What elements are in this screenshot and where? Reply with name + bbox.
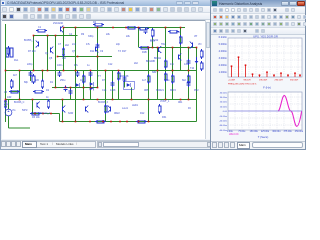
svg-text:-30.00m: -30.00m [219, 125, 227, 127]
wire top rail [64, 27, 186, 29]
junction J32 [77, 56, 79, 58]
junction J24 [75, 70, 77, 72]
resistor R30 [164, 61, 167, 67]
svg-text:47u: 47u [74, 64, 79, 67]
svg-text:1u: 1u [87, 64, 90, 67]
wire v x163 [165, 28, 167, 100]
svg-text:250u: 250u [60, 79, 66, 82]
resistor R1 [10, 81, 13, 87]
transistor Q6 [85, 107, 87, 112]
junction J31 [57, 56, 59, 58]
svg-text:68R: 68R [152, 71, 157, 74]
harmonic stem 11 [299, 75, 301, 77]
svg-text:R3 10k: R3 10k [32, 116, 40, 119]
svg-text:1.000m: 1.000m [219, 71, 227, 74]
transistor Q8 [178, 55, 180, 60]
svg-text:R4: R4 [93, 21, 97, 24]
junction J1 [33, 35, 35, 37]
svg-text:22k: 22k [126, 35, 131, 38]
junction J63 [148, 121, 150, 123]
junction J22 [47, 70, 49, 72]
harmonic stem 2 [238, 57, 240, 77]
junction J59 [110, 121, 112, 123]
junction J61 [126, 121, 128, 123]
capacitor C1 [58, 72, 62, 74]
junction J23 [63, 70, 65, 72]
output waveform [278, 96, 302, 127]
svg-text:150.00u: 150.00u [250, 131, 259, 133]
transistor Q9 [192, 43, 194, 48]
svg-text:C14: C14 [102, 89, 107, 92]
ground GND1 [196, 57, 198, 61]
waveform plot frame [228, 92, 302, 130]
junction J36 [70, 87, 72, 89]
transistor Q11 [158, 47, 160, 52]
svg-text:2SC2240: 2SC2240 [53, 22, 64, 25]
wire v x129 [131, 88, 133, 100]
svg-text:NJW: NJW [68, 112, 74, 115]
junction J26 [105, 70, 107, 72]
svg-text:VG: VG [12, 109, 16, 112]
resistor R10 [187, 76, 190, 82]
svg-text:C1: C1 [38, 26, 42, 29]
svg-text:VOUT_1: VOUT_1 [160, 100, 170, 103]
junction J15 [172, 47, 174, 49]
plot client area [211, 35, 305, 141]
svg-text:BC846_C: BC846_C [14, 101, 25, 104]
right bottom strip [211, 141, 305, 149]
resistor R8 [171, 76, 174, 82]
svg-text:2.000m: 2.000m [219, 64, 227, 67]
transistor Q1 [38, 42, 40, 47]
wire v x6 low [8, 116, 10, 128]
capacitor C4 [111, 82, 115, 84]
wire v x9 [12, 91, 20, 93]
svg-text:47k: 47k [86, 43, 91, 46]
svg-text:2n2: 2n2 [72, 43, 77, 46]
svg-text:10u: 10u [80, 79, 85, 82]
svg-text:T7: T7 [98, 75, 101, 78]
junction J34 [55, 87, 57, 89]
svg-text:20.00m: 20.00m [220, 102, 227, 104]
relay K1 [6, 48, 9, 57]
resistor R19 [128, 26, 135, 29]
junction J50 [180, 99, 182, 101]
capacitor C2 [76, 72, 80, 74]
junction J60 [119, 121, 121, 123]
wire v x116 [118, 71, 120, 100]
svg-text:R31: R31 [162, 116, 167, 119]
svg-text:50Hz: 50Hz [22, 109, 28, 112]
resistor R14 [7, 48, 10, 54]
svg-text:0R1: 0R1 [178, 101, 183, 104]
wire v x73 [75, 28, 77, 122]
resistor R13 [147, 76, 150, 82]
stem plot frame [228, 38, 302, 77]
svg-text:47p: 47p [170, 63, 175, 66]
svg-text:4.000m: 4.000m [219, 50, 227, 53]
junction J2 [47, 35, 49, 37]
svg-text:4k7: 4k7 [13, 74, 18, 77]
junction J8 [125, 27, 127, 29]
junction J54 [50, 113, 52, 115]
harmonic stem 5 [259, 75, 261, 77]
svg-text:T (Secs): T (Secs) [258, 135, 269, 139]
wire v x110 [112, 71, 114, 100]
svg-text:22p: 22p [116, 43, 121, 46]
capacitor C10 [69, 90, 73, 92]
transistor Q2 [50, 48, 52, 53]
resistor R23 [35, 90, 42, 93]
svg-text:BD140B: BD140B [146, 60, 155, 63]
diode D4 [76, 83, 80, 87]
harmonic stem 10 [294, 73, 296, 77]
capacitor C6 [187, 60, 191, 62]
resistor R4 [82, 76, 85, 82]
capacitor C11 [29, 72, 33, 74]
svg-text:10.00m: 10.00m [220, 106, 227, 108]
svg-text:1N4148: 1N4148 [120, 75, 129, 78]
junction J28 [157, 70, 159, 72]
resistor R12 [158, 106, 161, 112]
svg-text:75.00u: 75.00u [238, 131, 246, 133]
source V1 [5, 109, 12, 116]
junction J56 [75, 121, 77, 123]
junction J42 [32, 99, 34, 101]
wire v x146 [148, 48, 150, 122]
resistor R6 [117, 73, 120, 79]
right title bar [211, 0, 305, 7]
junction J51 [188, 99, 190, 101]
junction J35 [65, 87, 67, 89]
resistor R7 [151, 30, 154, 36]
wire v x186 [188, 48, 190, 100]
junction J39 [97, 87, 99, 89]
svg-text:R20: R20 [176, 31, 181, 34]
harmonic stem 6 [266, 72, 268, 77]
svg-text:R17: R17 [122, 50, 127, 53]
diode D3 [123, 81, 134, 89]
left bottom tab strip [1, 140, 212, 148]
resistor R27 [32, 112, 39, 115]
junction J43 [62, 99, 64, 101]
left toolbar row 2 [1, 13, 212, 20]
resistor R31 [164, 74, 167, 80]
junction J17 [196, 47, 198, 49]
resistor R20 [97, 120, 104, 123]
junction J16 [188, 47, 190, 49]
svg-text:T3: T3 [118, 50, 121, 53]
junction J41 [19, 99, 21, 101]
wire v x136 [138, 28, 140, 48]
transistor Q3 [60, 27, 62, 32]
svg-text:392.0kH: 392.0kH [290, 80, 299, 82]
svg-text:1n0: 1n0 [184, 63, 189, 66]
svg-text:R12: R12 [140, 112, 145, 115]
junction J46 [112, 99, 114, 101]
svg-text:68p: 68p [24, 81, 29, 84]
wire rail y78 [6, 99, 197, 101]
svg-text:294.0kH: 294.0kH [275, 80, 284, 82]
svg-text:220p: 220p [27, 63, 33, 66]
svg-text:R11: R11 [90, 50, 95, 53]
svg-text:BD911: BD911 [154, 57, 162, 60]
svg-text:Q5: Q5 [49, 57, 53, 60]
wire v x68 [70, 88, 72, 100]
svg-text:R1B: R1B [142, 51, 147, 54]
junction J53 [42, 113, 44, 115]
wire left border [5, 24, 7, 122]
wire v x95 [97, 28, 99, 88]
svg-text:375.00u: 375.00u [284, 131, 293, 133]
svg-text:1k0: 1k0 [62, 57, 67, 60]
junction J55 [62, 121, 64, 123]
wire v x31 [33, 36, 35, 71]
svg-text:D1: D1 [50, 81, 54, 84]
junction J58 [102, 121, 104, 123]
wire v x103 [105, 71, 107, 122]
svg-text:LED1: LED1 [132, 104, 139, 107]
resistor R21 [138, 120, 145, 123]
junction J45 [97, 99, 99, 101]
svg-text:VG1: VG1 [4, 103, 9, 106]
svg-text:C7: C7 [58, 43, 62, 46]
resistor R15 [200, 63, 203, 69]
junction J3 [55, 35, 57, 37]
wire v x81 [83, 71, 85, 100]
junction J62 [138, 121, 140, 123]
harmonic stem 3 [245, 65, 247, 77]
wire mid rail [6, 70, 197, 72]
svg-text:R9: R9 [81, 33, 85, 36]
resistor R5 [104, 106, 107, 112]
capacitor C12 [64, 87, 68, 89]
resistor R2 [32, 76, 35, 82]
left title bar [1, 0, 212, 6]
svg-text:10R: 10R [7, 96, 12, 99]
junction J40 [5, 99, 7, 101]
svg-text:Rz: Rz [188, 107, 192, 110]
svg-text:0.00: 0.00 [223, 111, 228, 113]
resistor R22 [11, 90, 18, 93]
wire v x45 [47, 36, 49, 71]
wire v x150 [152, 36, 154, 48]
svg-text:BD140_2: BD140_2 [40, 112, 51, 115]
svg-text:300.00u: 300.00u [272, 131, 281, 133]
left horizontal scrollbar [97, 141, 212, 148]
capacitor C9 [123, 77, 127, 79]
wire bottom rail L [31, 113, 60, 115]
junction J14 [157, 47, 159, 49]
svg-text:5.000m: 5.000m [219, 43, 227, 46]
svg-text:8k2: 8k2 [182, 79, 187, 82]
svg-text:Lout1: Lout1 [122, 107, 129, 110]
resistor R16 [41, 81, 44, 87]
wire v x155 [157, 48, 159, 100]
wire v x40 [42, 71, 44, 82]
wire v x178 [180, 28, 182, 71]
svg-text:2k2: 2k2 [134, 62, 139, 65]
wire rail y36 [58, 56, 113, 58]
svg-text:+0.0kH: +0.0kH [228, 80, 235, 82]
wire v x122 [124, 71, 126, 88]
junction J20 [33, 70, 35, 72]
svg-text:R7 2k0: R7 2k0 [28, 50, 36, 53]
resistor R29 [141, 46, 148, 49]
junction J25 [90, 70, 92, 72]
junction J37 [83, 87, 85, 89]
svg-text:LBL0.0C: LBL0.0C [229, 133, 239, 136]
svg-text:-40.00m: -40.00m [219, 130, 227, 132]
wire v x28 [30, 73, 32, 81]
svg-text:V3: V3 [4, 91, 8, 94]
resistor R11 [200, 51, 203, 57]
wire v x30 low [32, 100, 34, 114]
caption buttons [281, 1, 289, 6]
junction J9 [138, 27, 140, 29]
svg-text:F (Hz): F (Hz) [263, 86, 271, 90]
wire rail y67 [52, 87, 98, 89]
resistor R24 [170, 30, 177, 33]
svg-text:MJ15: MJ15 [170, 89, 177, 92]
svg-text:4u7: 4u7 [142, 79, 147, 82]
svg-text:4148: 4148 [110, 89, 116, 92]
svg-text:1k: 1k [167, 79, 170, 82]
wire v x53 [55, 36, 57, 88]
harmonic stem 8 [280, 73, 282, 77]
junction J33 [97, 56, 99, 58]
svg-text:VN: VN [198, 43, 202, 46]
right toolbars [211, 7, 305, 14]
svg-text:1k: 1k [46, 96, 49, 99]
svg-text:10P222: 10P222 [150, 39, 159, 42]
svg-text:1k5: 1k5 [35, 79, 40, 82]
left toolbar row 1 [1, 6, 212, 13]
schematic area [2, 20, 205, 139]
svg-text:D2: D2 [46, 89, 50, 92]
junction J10 [165, 27, 167, 29]
junction J21 [42, 70, 44, 72]
junction J48 [148, 99, 150, 101]
svg-text:2k2: 2k2 [65, 44, 70, 47]
capacitor C8 [96, 44, 100, 46]
resistor R26 [47, 101, 50, 107]
wire bottom step [59, 114, 61, 122]
junction J29 [172, 70, 174, 72]
wire right riser [196, 48, 198, 122]
junction J18 [5, 70, 7, 72]
wire right top rail [140, 47, 197, 49]
svg-text:-20.00m: -20.00m [219, 121, 227, 123]
junction J11 [180, 27, 182, 29]
junction J12 [148, 47, 150, 49]
wire rail B [34, 35, 78, 37]
svg-text:BC856_1: BC856_1 [24, 39, 35, 42]
svg-text:100n: 100n [57, 64, 63, 67]
wire v x60 low [62, 100, 64, 122]
harmonic stem 7 [273, 75, 275, 77]
svg-text:C9: C9 [100, 50, 104, 53]
junction J47 [131, 99, 133, 101]
harmonic stem 1 [231, 66, 233, 77]
junction J13 [152, 47, 154, 49]
junction J44 [83, 99, 85, 101]
harmonic stem 4 [252, 74, 254, 77]
junction J5 [75, 27, 77, 29]
svg-text:225.00u: 225.00u [261, 131, 270, 133]
junction J27 [118, 70, 120, 72]
svg-text:NJW21: NJW21 [156, 89, 165, 92]
svg-text:98.0kH: 98.0kH [244, 80, 251, 82]
capacitor C7 [187, 82, 191, 84]
svg-text:TR2: TR2 [161, 43, 166, 46]
wire bottom stub [9, 127, 31, 129]
svg-text:RV2: RV2 [194, 89, 199, 92]
svg-text:BC846_2: BC846_2 [98, 101, 109, 104]
svg-text:450.00u: 450.00u [295, 131, 304, 133]
svg-text:40.00m: 40.00m [220, 92, 227, 94]
junction J30 [188, 70, 190, 72]
harmonic stem 9 [287, 75, 289, 77]
resistor R28 [140, 27, 147, 30]
zero axis [228, 110, 302, 112]
svg-text:-10.00m: -10.00m [219, 116, 227, 118]
svg-text:T10: T10 [190, 67, 195, 70]
transistor Q4 [95, 47, 97, 52]
junction J49 [165, 99, 167, 101]
capacitor C5 [144, 29, 148, 31]
transistor Q7 [110, 107, 112, 112]
svg-text:196.0kH: 196.0kH [259, 80, 268, 82]
junction J19 [19, 70, 21, 72]
junction J4 [63, 27, 65, 29]
resistor R18 [95, 23, 102, 26]
wire v x6 [8, 100, 10, 110]
diode D2 [90, 87, 94, 91]
wire v x170 [172, 48, 174, 100]
svg-text:6.242m: 6.242m [219, 36, 227, 39]
left window vertical scrollbar [205, 20, 211, 139]
svg-text:VP: VP [194, 35, 198, 38]
transistor Q5 [62, 107, 64, 112]
resistor R3 [62, 49, 65, 55]
resistor R9 [179, 37, 182, 43]
svg-text:330p: 330p [88, 35, 94, 38]
capacitor C3 [89, 72, 93, 74]
junction J6 [97, 27, 99, 29]
junction J52 [34, 113, 36, 115]
wire bottom rail R [60, 121, 197, 123]
junction J7 [112, 27, 114, 29]
svg-text:0R5: 0R5 [144, 89, 149, 92]
svg-text:C12: C12 [108, 63, 113, 66]
resistor R17 [38, 29, 45, 32]
svg-text:0R22: 0R22 [114, 112, 120, 115]
resistor R25 [4, 101, 7, 107]
svg-text:22k: 22k [106, 33, 111, 36]
svg-text:RL1: RL1 [14, 59, 19, 62]
wire v x88 [90, 71, 92, 100]
svg-text:Q4: Q4 [45, 52, 49, 55]
diode D1 [90, 82, 94, 86]
wire v x61 [63, 28, 65, 71]
svg-text:3.000m: 3.000m [219, 57, 227, 60]
svg-text:30.00m: 30.00m [220, 97, 227, 99]
svg-text:FREQ=98.14kHz THD:0.31%: FREQ=98.14kHz THD:0.31% [228, 84, 257, 86]
wire v x17 [19, 71, 21, 100]
junction J57 [89, 121, 91, 123]
junction J38 [90, 87, 92, 89]
